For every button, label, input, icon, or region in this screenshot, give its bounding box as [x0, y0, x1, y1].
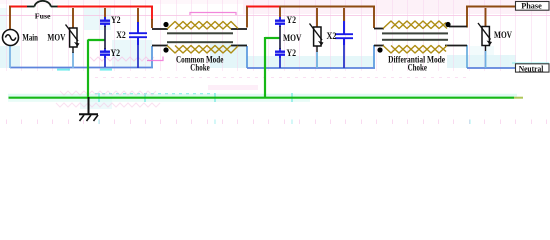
svg-text:X2: X2 [116, 30, 126, 40]
svg-text:Choke: Choke [408, 62, 427, 72]
svg-text:Y2: Y2 [287, 15, 297, 25]
svg-text:Choke: Choke [190, 62, 209, 72]
svg-text:MOV: MOV [283, 33, 302, 43]
svg-text:Y2: Y2 [287, 48, 297, 58]
svg-text:MOV: MOV [47, 32, 65, 42]
svg-text:Neutral: Neutral [519, 64, 544, 73]
svg-text:MOV: MOV [494, 30, 512, 40]
svg-text:Fuse: Fuse [35, 12, 51, 21]
svg-text:Phase: Phase [521, 2, 542, 11]
svg-text:Y2: Y2 [111, 48, 121, 58]
svg-text:Main: Main [22, 32, 38, 42]
svg-text:Y2: Y2 [111, 15, 121, 25]
svg-text:X2: X2 [327, 31, 337, 41]
